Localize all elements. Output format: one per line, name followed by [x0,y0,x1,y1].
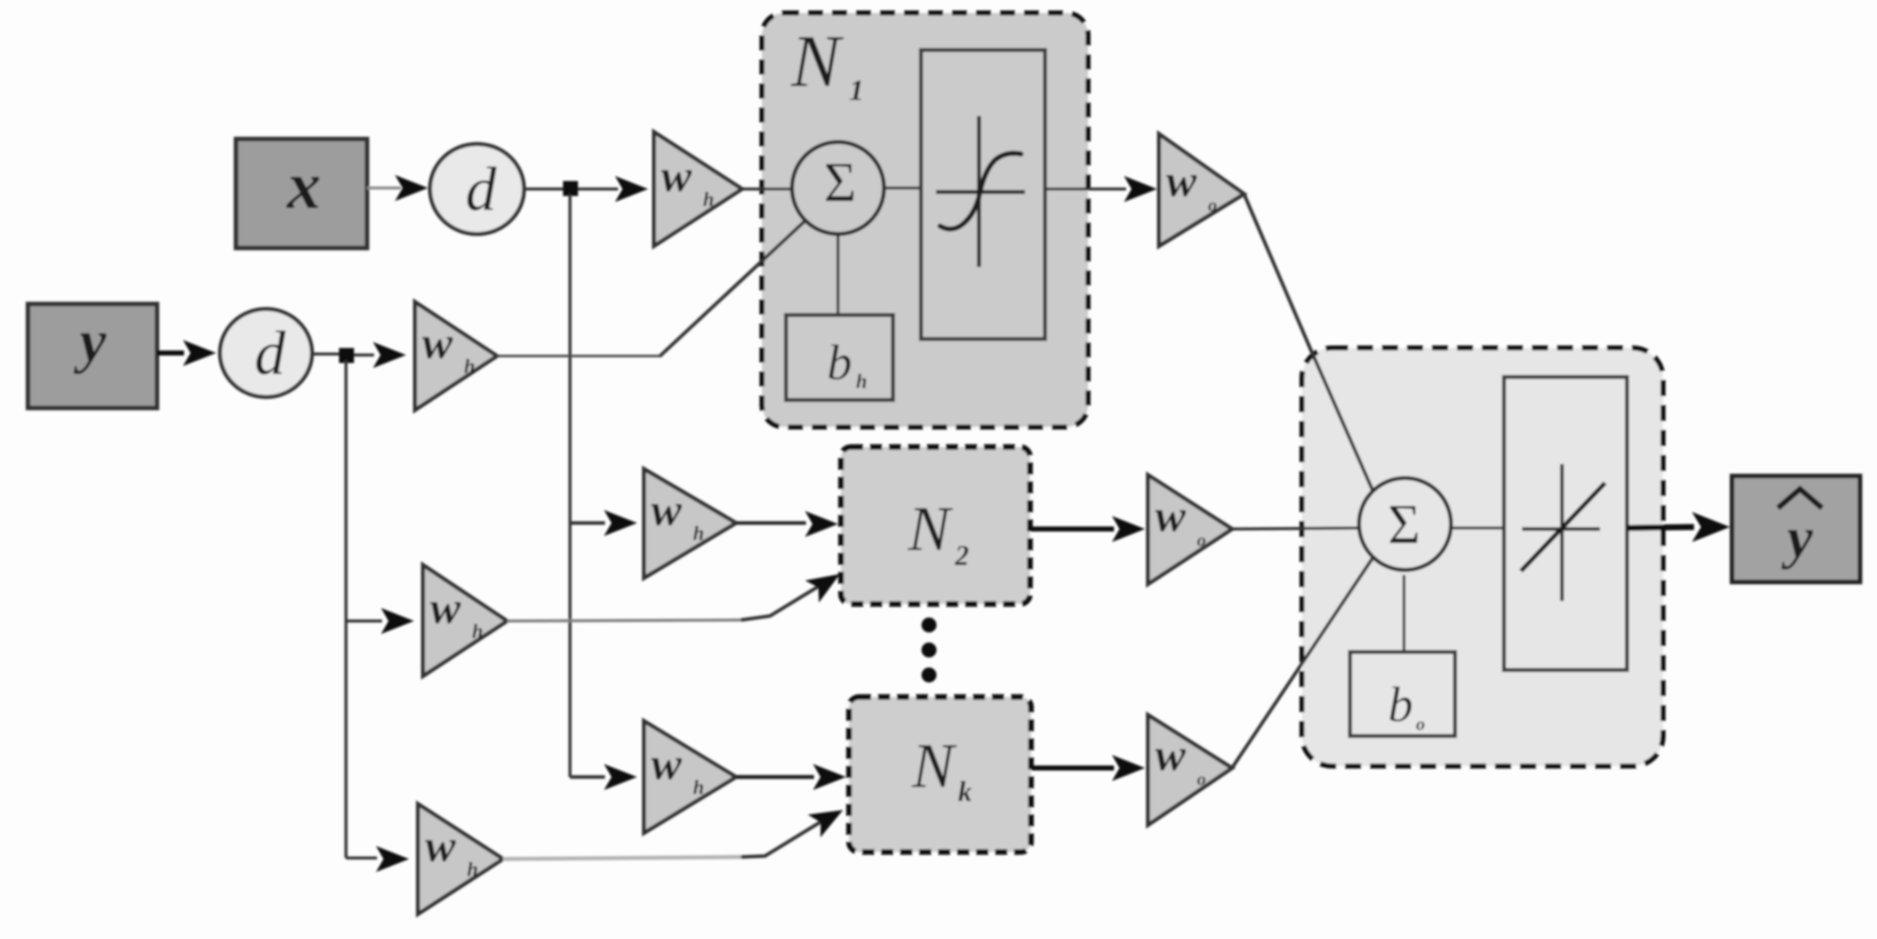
wire sum to linear activation [1451,527,1505,530]
svg-text:Σ: Σ [824,152,857,214]
svg-text:N: N [907,494,953,564]
summation node output [1359,478,1451,570]
amplifier wh3 [644,469,736,578]
svg-text:h: h [703,189,714,211]
junction node (y path) [339,348,354,363]
wire sum to bias bh [837,234,840,316]
amplifier wh2 [415,302,497,410]
amplifier wo1 [1159,134,1244,246]
ellipsis dots [922,618,937,633]
neuron N2 dashed block [841,447,1030,604]
svg-text:d: d [255,320,287,388]
wire wo1 to output sum (diagonal) [1244,194,1376,498]
branch to wh6 [346,857,377,860]
wire N2 to wo2 [1030,527,1114,532]
wire wh4 diagonal into N2 [741,583,824,620]
svg-text:d: d [466,156,498,224]
input box y [28,304,157,408]
svg-text:w: w [1155,729,1186,780]
svg-text:w: w [651,484,682,535]
wire N1 output to wo1 [1045,188,1126,191]
wire wh5 to Nk [736,775,814,779]
svg-text:h: h [472,621,483,643]
junction node (x path) [563,181,578,196]
output box yhat [1732,476,1860,582]
svg-text:b: b [827,334,852,390]
svg-text:N: N [790,21,844,103]
svg-text:w: w [422,317,453,368]
svg-text:w: w [430,582,461,633]
input box x [236,139,367,248]
svg-text:w: w [661,150,692,201]
svg-text:h: h [856,371,867,393]
svg-text:w: w [1155,490,1186,541]
svg-text:b: b [1388,676,1413,732]
svg-text:x: x [286,147,321,223]
delay element d (x path) [430,144,524,234]
wire wh1 tip to sum [742,188,793,191]
svg-text:h: h [693,777,704,799]
svg-text:w: w [1166,155,1197,206]
amplifier wh5 [644,721,736,833]
svg-text:o: o [1197,769,1206,789]
svg-text:k: k [958,777,972,808]
wire junction to wh2 [354,354,374,357]
wire wh6 diagonal into Nk [741,818,827,857]
linear activation box [1504,377,1627,670]
branch to wh4 [346,620,382,623]
vertical bus from y junction [345,360,348,858]
amplifier wo3 [1148,715,1232,825]
svg-text:h: h [467,859,478,881]
wire d to junction (y path) [312,353,339,356]
wire wo3 to output sum (diagonal) [1232,556,1374,768]
wire wh3 to N2 [736,521,806,525]
svg-text:h: h [693,523,704,545]
svg-text:N: N [911,731,957,801]
wire sum to bias bo [1403,575,1406,653]
wire x to delay [367,187,401,190]
wire d to junction (x path) [524,188,563,191]
wire wh4 output (light) [507,620,741,621]
branch to wh3 [570,521,605,525]
svg-text:o: o [1197,530,1206,550]
wire wh2 diagonal to sum [660,220,806,356]
activation function box (tanh) [921,50,1045,339]
output arrow to yhat [1627,527,1694,528]
svg-text:o: o [1416,714,1425,734]
wire Nk to wo3 [1031,766,1114,771]
output neuron dashed block [1302,348,1663,766]
vertical bus from x junction [569,194,572,777]
svg-text:o: o [1208,195,1217,215]
svg-text:Σ: Σ [1388,494,1421,556]
bias box bo [1350,652,1455,736]
neuron Nk dashed block [849,697,1031,852]
svg-text:1: 1 [849,74,864,107]
wire junction to wh1 [578,188,618,191]
wire wh2 output horizontal [497,355,662,358]
svg-text:h: h [464,356,475,378]
wire y to delay [157,351,184,356]
neuron N1 dashed block [762,13,1088,427]
svg-text:2: 2 [954,541,969,572]
summation node N1 [792,142,884,234]
branch to wh5 [570,775,605,779]
delay element d (y path) [220,309,312,397]
bias box bh [786,315,893,400]
svg-text:w: w [651,738,682,789]
amplifier wh6 [418,804,503,914]
wire sum to activation [884,187,923,190]
wire wh6 output (light) [503,857,741,859]
amplifier wo2 [1148,475,1232,584]
svg-text:w: w [425,820,456,871]
wire wo2 to output sum [1232,528,1359,529]
amplifier wh4 [423,565,507,676]
amplifier wh1 [654,132,742,246]
